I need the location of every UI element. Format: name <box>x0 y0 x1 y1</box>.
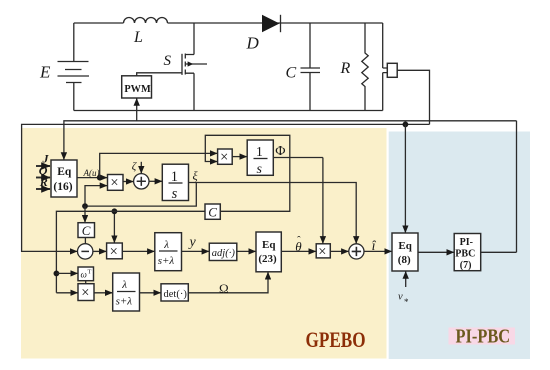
svg-text:S: S <box>164 53 172 69</box>
svg-text:×: × <box>110 244 118 260</box>
node on left vertical <box>54 271 60 277</box>
wire: det to Eq23 bottom, Omega label <box>188 272 268 293</box>
PI-PBC blue background <box>389 132 530 360</box>
svg-text:C: C <box>286 65 297 82</box>
svg-text:s: s <box>172 186 178 202</box>
svg-text:(23): (23) <box>258 253 277 265</box>
svg-text:E: E <box>39 63 51 82</box>
svg-text:Φ: Φ <box>275 144 285 159</box>
multiplier x5 <box>78 284 94 301</box>
wire: C to minus junction <box>84 238 86 244</box>
svg-text:λ: λ <box>121 279 127 291</box>
svg-text:ˆ: ˆ <box>297 235 301 247</box>
wire: sum1 to integrator <box>149 180 162 182</box>
svg-text:C: C <box>208 205 217 220</box>
svg-text:ξ: ξ <box>193 169 199 183</box>
wire: xi branch down and left to node N2 <box>85 183 196 207</box>
wire: N2 down to C block <box>84 206 86 222</box>
svg-text:Eq: Eq <box>57 166 72 178</box>
wire: Eq23 to x3, theta-hat label <box>281 250 316 252</box>
wire: PI-PBC output to u line <box>481 251 517 253</box>
wire: v measurement line <box>22 124 430 251</box>
wire: adj to Eq23 <box>237 250 256 252</box>
svg-text:×: × <box>220 149 228 165</box>
integrator 1/s #1 <box>162 164 188 200</box>
wire: C2 output line H <box>56 211 205 292</box>
svg-text:s+λ: s+λ <box>158 255 175 267</box>
summing junction 2 <box>349 244 364 259</box>
summing junction 1 <box>134 174 149 189</box>
wire: xi into x1 second input <box>85 186 107 207</box>
v* input <box>405 271 407 287</box>
svg-text:s: s <box>257 162 263 177</box>
PI-PBC label <box>449 328 516 345</box>
svg-text:PI-PBC: PI-PBC <box>456 325 511 347</box>
integrator 1/s #2 <box>247 140 273 175</box>
node A(u) <box>97 175 103 181</box>
wire: Phi output line <box>273 157 323 159</box>
filter lambda/(s+lambda) #2 <box>113 273 140 311</box>
capacitor C <box>309 23 311 111</box>
svg-text:Eq: Eq <box>262 239 276 251</box>
svg-text:PBC: PBC <box>455 249 475 260</box>
Eq (16) block <box>51 160 77 197</box>
wire: C2 right to Phi line <box>220 158 289 212</box>
wire: x3 to sum2 <box>330 250 348 252</box>
wire: filter2 to det <box>140 292 161 294</box>
connector omega to x5 <box>85 281 87 284</box>
svg-text:s+λ: s+λ <box>116 296 133 308</box>
adj block <box>209 243 237 260</box>
svg-text:(16): (16) <box>53 181 72 193</box>
multiplier x3 <box>316 244 330 258</box>
svg-text:R: R <box>340 60 351 77</box>
wire: circuit top rail <box>74 22 383 24</box>
resistor R <box>362 23 368 111</box>
omega^T block <box>78 267 94 281</box>
Eq (8) block <box>392 233 418 271</box>
wire: minus to x4 <box>93 250 106 252</box>
diode D <box>262 15 280 32</box>
wire: A(u) up to multiplier x2 <box>100 153 218 177</box>
det block <box>161 284 188 301</box>
svg-text:D: D <box>246 34 260 53</box>
Eq (23) block <box>256 232 281 272</box>
input J <box>36 165 50 167</box>
svg-text:PI-: PI- <box>460 237 473 248</box>
filter lambda/(s+lambda) #1 <box>155 233 182 271</box>
wire: Eq8 to PI-PBC <box>418 251 454 253</box>
wire: gate to PWM <box>137 73 182 76</box>
wire: into x5 <box>56 292 77 294</box>
PI-PBC (7) block <box>454 234 481 271</box>
svg-text:×: × <box>318 244 326 260</box>
wire: circuit bottom rail <box>74 110 383 112</box>
wire: u feedback (PI-PBC to PWM and Eq16) <box>64 121 517 160</box>
sensor box on output <box>383 68 388 73</box>
wire: sum2 to Eq8, i-hat label <box>364 250 392 252</box>
svg-text:y: y <box>188 235 197 250</box>
multiplier x4 <box>107 243 123 259</box>
GPEBO yellow background <box>21 128 387 359</box>
svg-text:Eq: Eq <box>398 240 412 252</box>
wire: x2 to integrator 2 <box>232 156 247 158</box>
svg-text:PWM: PWM <box>124 84 151 95</box>
wire: x4 to filter1 <box>122 250 154 252</box>
svg-text:Ω: Ω <box>219 281 229 296</box>
battery E <box>73 23 75 111</box>
wire: xi line to sum2 <box>189 183 357 244</box>
PWM block <box>122 76 152 98</box>
svg-text:×: × <box>81 285 89 301</box>
wire: Phi feedback loop to x2 <box>205 135 289 161</box>
svg-text:(7): (7) <box>460 260 472 271</box>
svg-text:A(u): A(u) <box>83 168 100 178</box>
svg-text:1: 1 <box>256 145 263 160</box>
node on v line <box>403 122 409 128</box>
wire: A(u) output of Eq16 <box>77 177 107 179</box>
node N3 <box>112 208 118 214</box>
svg-text:ω: ω <box>81 270 87 280</box>
svg-text:R: R <box>39 175 48 189</box>
multiplier x1 <box>108 175 124 191</box>
svg-text:(8): (8) <box>398 254 411 266</box>
wire: Phi down into x3 <box>322 158 324 244</box>
svg-text:C: C <box>82 223 91 238</box>
wire: N3 down into x4 <box>113 211 115 242</box>
multiplier x2 <box>218 149 233 164</box>
inductor L <box>124 18 168 23</box>
wire: v down to Eq(8) <box>404 124 406 232</box>
svg-text:v: v <box>398 292 403 303</box>
wire: into omega^T <box>56 272 77 274</box>
node N2 <box>82 203 88 209</box>
svg-text:T: T <box>88 269 92 276</box>
wire: x5 to filter2 <box>94 292 112 294</box>
C block (right, C2) <box>205 204 220 219</box>
wire: circuit right vertical <box>382 23 384 111</box>
svg-text:L: L <box>133 29 143 46</box>
C block (left) <box>78 223 95 238</box>
svg-text:det(·): det(·) <box>164 289 188 300</box>
summing junction minus <box>78 244 93 259</box>
input Q <box>36 177 50 179</box>
zeta input <box>140 162 142 174</box>
svg-text:GPEBO: GPEBO <box>306 328 366 353</box>
wire: x1 to sum1 <box>123 181 133 183</box>
input R <box>36 188 50 190</box>
svg-text:×: × <box>110 175 118 191</box>
wire: sensor output v <box>397 70 429 124</box>
transistor S (MOSFET) <box>185 23 194 111</box>
svg-text:λ: λ <box>163 239 169 251</box>
wire: filter1 to adj, y label <box>182 250 210 252</box>
svg-text:adj(·): adj(·) <box>212 248 236 259</box>
svg-text:*: * <box>404 297 409 307</box>
